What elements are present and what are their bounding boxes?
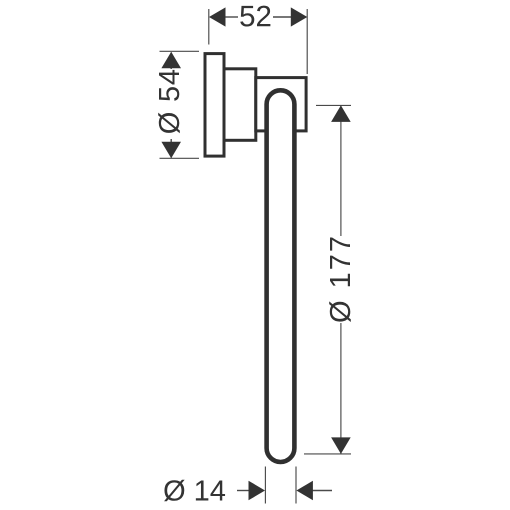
dim O54: label	[158, 70, 180, 133]
dim O177: dim line top seg	[340, 106, 342, 236]
dim O14: leader left	[237, 490, 250, 492]
dim O54: arrow down	[161, 142, 181, 159]
dim O177: arrow up	[331, 105, 351, 122]
dim O177: extension line top	[316, 104, 351, 106]
dim O54: arrow up	[161, 52, 181, 68]
dim 52: arrow right	[291, 7, 308, 26]
towel ring (side view capsule)	[267, 90, 295, 462]
dim O177: dim line bottom seg	[340, 323, 342, 454]
dim O54: dim line bottom seg	[170, 139, 172, 158]
dim O177: extension line bottom	[304, 453, 351, 455]
dim 52: extension line right	[306, 9, 308, 74]
dim O14: arrow pointing left	[296, 481, 313, 501]
dim 52: extension line left	[208, 9, 210, 45]
dim O14: label	[164, 480, 225, 502]
wall plate	[205, 54, 224, 157]
dim 52: arrow left	[209, 7, 226, 26]
dim 52: leader left	[224, 16, 238, 18]
dim O14: extension line right	[295, 467, 297, 504]
dim O54: dim line top seg	[170, 53, 172, 70]
dim O177: arrow down	[331, 437, 351, 454]
holder block	[256, 78, 306, 131]
dim O54: extension line top	[160, 50, 200, 52]
dim 52: label	[240, 6, 270, 27]
dim O14: leader right	[311, 490, 332, 492]
dim 52: leader right	[273, 16, 292, 18]
dim O14: extension line left	[264, 467, 266, 504]
dim O14: arrow pointing right	[249, 481, 266, 501]
escutcheon	[224, 69, 256, 141]
dim O177: label	[329, 238, 351, 323]
dim O54: extension line bottom	[160, 157, 200, 159]
